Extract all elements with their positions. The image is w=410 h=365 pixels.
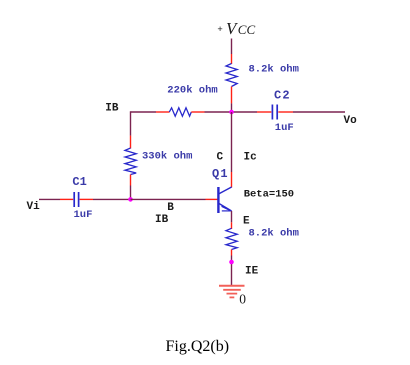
wire RE to ground <box>231 256 233 286</box>
wire input left <box>39 198 60 200</box>
svg-text:CC: CC <box>238 22 256 37</box>
svg-text:1uF: 1uF <box>275 122 294 134</box>
svg-text:220k ohm: 220k ohm <box>167 85 217 97</box>
junction base node dot <box>128 197 133 202</box>
wire RE top pin lead <box>231 222 233 229</box>
wire C1 right pin lead <box>80 198 93 200</box>
wire base pin lead <box>206 198 218 200</box>
wire collector vertical from junction <box>231 112 233 172</box>
svg-text:Vi: Vi <box>27 201 41 213</box>
ground symbol <box>219 286 245 298</box>
wire C2 right pin lead <box>278 111 293 113</box>
junction emitter node dot <box>229 260 234 265</box>
resistor RE 8.2k emitter zigzag <box>226 228 237 249</box>
wire R2 right pin lead <box>191 111 204 113</box>
svg-text:IE: IE <box>245 266 259 278</box>
svg-text:Vo: Vo <box>344 115 358 127</box>
wire left bias vertical top <box>130 111 132 135</box>
svg-text:Beta=150: Beta=150 <box>244 189 294 201</box>
wire VCC vertical top <box>231 39 233 55</box>
node VCC label <box>217 19 255 38</box>
resistor R1 330k zigzag <box>125 148 136 175</box>
wire RC to junction <box>231 103 233 113</box>
capacitor C1 plates <box>74 192 78 207</box>
svg-text:Ic: Ic <box>244 152 257 164</box>
svg-text:C: C <box>217 152 224 164</box>
wire C2 to Vo <box>293 111 345 113</box>
svg-text:IB: IB <box>155 214 169 226</box>
svg-text:IB: IB <box>105 103 119 115</box>
resistor R2 220k zigzag <box>169 108 191 116</box>
wire R2 left pin lead <box>156 111 170 113</box>
wire RC bottom pin lead <box>231 87 233 104</box>
wire junction to C2 <box>232 111 258 113</box>
wire C2 left pin lead <box>257 111 271 113</box>
wire C1 to base junction <box>93 198 131 200</box>
svg-text:E: E <box>243 216 250 228</box>
svg-text:B: B <box>167 202 174 214</box>
svg-text:0: 0 <box>239 292 246 307</box>
svg-text:+: + <box>217 25 222 35</box>
wire collector pin lead <box>231 172 233 188</box>
wire RC top pin lead <box>231 54 233 64</box>
wire R1 bottom pin lead <box>130 175 132 186</box>
capacitor C2 plates <box>272 105 277 120</box>
junction collector node dot <box>229 110 234 115</box>
svg-text:1uF: 1uF <box>74 209 93 221</box>
wire R2 to junction <box>205 111 232 113</box>
wire RE bottom pin lead <box>231 250 233 256</box>
svg-text:Fig.Q2(b): Fig.Q2(b) <box>166 338 230 355</box>
svg-text:Q1: Q1 <box>212 167 229 181</box>
svg-text:C1: C1 <box>72 175 86 189</box>
svg-text:C2: C2 <box>274 88 291 102</box>
svg-text:8.2k ohm: 8.2k ohm <box>249 64 299 76</box>
transistor Q1 NPN symbol <box>218 187 231 213</box>
wire emitter down <box>231 211 233 222</box>
svg-text:330k ohm: 330k ohm <box>142 151 192 163</box>
wire R1 to base junction <box>130 186 132 201</box>
svg-text:8.2k ohm: 8.2k ohm <box>249 228 299 240</box>
wire R1 top pin lead <box>130 136 132 149</box>
wire C1 left pin lead <box>60 198 73 200</box>
wire output rail left segment <box>131 111 157 113</box>
wire base junction to transistor <box>131 198 206 200</box>
resistor RC 8.2k collector zigzag <box>226 64 237 87</box>
